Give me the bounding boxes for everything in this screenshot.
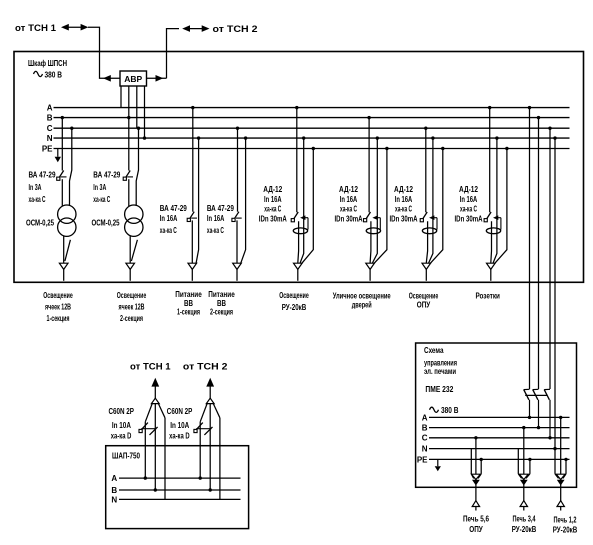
svg-text:ха-ка С: ха-ка С (460, 205, 477, 214)
svg-text:ВА 47-29: ВА 47-29 (207, 204, 234, 213)
svg-text:ха-ка С: ха-ка С (264, 205, 281, 214)
svg-text:In 3А: In 3А (93, 183, 106, 192)
svg-text:PE: PE (417, 455, 428, 464)
svg-text:380 В: 380 В (441, 406, 459, 415)
svg-text:АД-12: АД-12 (394, 185, 413, 194)
svg-text:ха-ка С: ха-ка С (29, 195, 46, 204)
svg-text:IDn 30mA: IDn 30mA (455, 215, 483, 224)
svg-text:ха-ка С: ха-ка С (340, 205, 357, 214)
svg-text:Освещение: Освещение (279, 291, 309, 300)
svg-text:Печь 1,2: Печь 1,2 (554, 516, 577, 525)
svg-text:1-секция: 1-секция (47, 314, 70, 323)
svg-text:Освещение: Освещение (117, 291, 147, 300)
svg-text:РУ-20кВ: РУ-20кВ (512, 525, 537, 534)
svg-text:In 16А: In 16А (264, 195, 282, 204)
svg-text:In 16А: In 16А (160, 214, 178, 223)
svg-text:ячеек 12В: ячеек 12В (45, 303, 71, 312)
svg-text:ВА 47-29: ВА 47-29 (160, 204, 187, 213)
svg-text:B: B (47, 114, 53, 123)
svg-text:IDn 30mA: IDn 30mA (390, 215, 418, 224)
svg-text:C60N 2P: C60N 2P (167, 407, 193, 416)
svg-text:A: A (422, 413, 428, 422)
svg-text:In 10А: In 10А (112, 421, 131, 430)
svg-text:C: C (47, 124, 53, 133)
svg-text:2-секция: 2-секция (120, 314, 143, 323)
svg-text:In 16А: In 16А (340, 195, 358, 204)
svg-text:ха-ка С: ха-ка С (207, 226, 224, 235)
svg-text:дверей: дверей (352, 300, 372, 309)
svg-text:Розетки: Розетки (475, 291, 500, 300)
svg-text:ВА 47-29: ВА 47-29 (29, 171, 56, 180)
svg-text:A: A (47, 104, 53, 113)
svg-text:ха-ка С: ха-ка С (395, 205, 412, 214)
svg-text:АВР: АВР (124, 74, 142, 84)
svg-text:Освещение: Освещение (43, 291, 73, 300)
svg-text:ха-ка С: ха-ка С (160, 226, 177, 235)
svg-text:In 16А: In 16А (395, 195, 413, 204)
svg-text:In 3А: In 3А (29, 183, 42, 192)
svg-text:1-секция: 1-секция (177, 308, 200, 317)
svg-text:380 В: 380 В (45, 71, 63, 80)
svg-text:Уличное освещение: Уличное освещение (333, 291, 391, 300)
svg-text:In 16А: In 16А (460, 195, 478, 204)
svg-text:ШАП-750: ШАП-750 (112, 452, 140, 461)
svg-text:РУ-20кВ: РУ-20кВ (553, 526, 578, 535)
svg-text:ОСМ-0,25: ОСМ-0,25 (26, 218, 54, 227)
svg-text:C: C (422, 434, 428, 443)
svg-text:Освещение: Освещение (409, 291, 439, 300)
svg-text:ВВ: ВВ (217, 299, 226, 308)
svg-text:ОПУ: ОПУ (469, 525, 483, 534)
svg-text:Схема: Схема (424, 346, 444, 355)
svg-text:N: N (111, 495, 117, 504)
svg-text:PE: PE (42, 144, 53, 153)
svg-text:от ТСН 1: от ТСН 1 (130, 362, 171, 373)
svg-text:IDn 30mA: IDn 30mA (259, 215, 287, 224)
svg-text:ВА 47-29: ВА 47-29 (93, 171, 120, 180)
svg-text:B: B (111, 486, 117, 495)
svg-text:Печь 5,6: Печь 5,6 (463, 515, 489, 524)
svg-text:АД-12: АД-12 (339, 185, 358, 194)
svg-text:от ТСН 2: от ТСН 2 (183, 362, 228, 373)
svg-text:ха-ка D: ха-ка D (169, 431, 190, 440)
svg-text:Шкаф ШПСН: Шкаф ШПСН (28, 59, 67, 68)
svg-text:2-секция: 2-секция (210, 308, 233, 317)
svg-text:N: N (47, 134, 53, 143)
svg-text:C60N 2P: C60N 2P (109, 407, 135, 416)
svg-text:от ТСН 1: от ТСН 1 (15, 23, 57, 34)
svg-text:АД-12: АД-12 (459, 185, 478, 194)
svg-text:A: A (111, 474, 117, 483)
svg-text:ячеек 12В: ячеек 12В (119, 303, 145, 312)
svg-text:от ТСН 2: от ТСН 2 (213, 24, 258, 35)
svg-text:РУ-20кВ: РУ-20кВ (282, 303, 307, 312)
svg-text:B: B (422, 424, 428, 433)
svg-text:эл. печами: эл. печами (424, 367, 456, 376)
svg-text:IDn 30mA: IDn 30mA (335, 215, 363, 224)
svg-text:АД-12: АД-12 (263, 185, 282, 194)
svg-text:ОПУ: ОПУ (417, 300, 431, 309)
svg-text:In 16А: In 16А (207, 214, 225, 223)
svg-text:N: N (422, 445, 428, 454)
svg-text:In 10А: In 10А (170, 421, 189, 430)
svg-text:Печь 3,4: Печь 3,4 (513, 515, 536, 524)
svg-text:ОСМ-0,25: ОСМ-0,25 (92, 218, 120, 227)
svg-text:ПМЕ 232: ПМЕ 232 (425, 385, 453, 394)
svg-text:ха-ка С: ха-ка С (93, 195, 110, 204)
svg-text:ха-ка D: ха-ка D (111, 431, 132, 440)
svg-text:ВВ: ВВ (184, 299, 193, 308)
